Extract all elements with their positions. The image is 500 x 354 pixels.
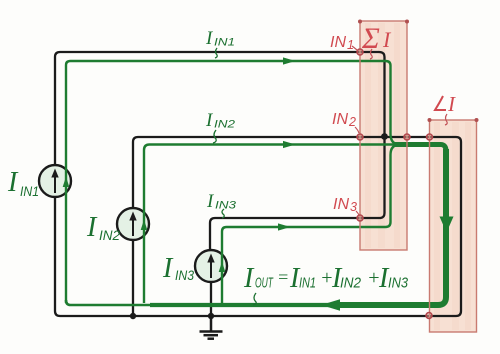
arrow I_IN1 inside source (up): [63, 177, 70, 188]
svg-text:IN: IN: [333, 196, 350, 213]
svg-text:1: 1: [347, 38, 354, 52]
svg-text:OUT: OUT: [255, 275, 274, 292]
label I_IN1 (source value): [7, 167, 39, 199]
label node IN3: [333, 196, 359, 215]
svg-text:IN3: IN3: [215, 200, 237, 212]
green output current I_OUT: thick vertical drop in output branch: [340, 149, 446, 305]
arrow I_IN3 flow (right): [278, 223, 291, 230]
wire: source I_IN3 bottom to ground rail: [210, 282, 212, 316]
wire: IN2 row from source I_IN2 to the right edge, down and along the bottom return to source I_IN1: [55, 137, 461, 316]
∠ I box corner dots: [428, 118, 479, 122]
label I_IN2 (middle wire current): [205, 110, 235, 143]
current source U2 (I_IN2): [117, 208, 149, 240]
green output return (thin, to I_IN1 branch): [66, 300, 150, 305]
label Σ I (sum of currents): [361, 22, 392, 59]
label I_IN2 (source value): [86, 212, 120, 243]
equation I_OUT = I_IN1 + I_IN2 + I_IN3: [243, 263, 409, 305]
svg-text:I: I: [7, 167, 19, 198]
junction source I_IN3 bottom / ground node: [208, 313, 214, 319]
highlight ∠ I box border: [430, 120, 477, 332]
label node IN2: [332, 111, 359, 133]
svg-text:IN: IN: [330, 34, 347, 51]
node IN3: [357, 215, 363, 221]
label ∠ I (output current direction): [435, 92, 456, 125]
svg-text:Σ: Σ: [361, 22, 380, 55]
svg-text:I: I: [447, 92, 456, 116]
svg-text:IN2: IN2: [99, 227, 120, 243]
wire: summing bus down to IN3 row and to source I_IN3 top: [210, 213, 385, 250]
svg-text:3: 3: [350, 200, 357, 214]
wire: source I_IN2 bottom to ground rail: [132, 240, 134, 316]
green current path I_IN1: bottom branch up through source, along top row to summing bus: [66, 61, 400, 303]
arrow I_IN1 flow (right): [283, 57, 296, 64]
junction on summing bus at IN2 row: [381, 133, 388, 140]
svg-text:IN2: IN2: [214, 119, 235, 131]
label I_IN3 (third wire current): [206, 191, 237, 218]
node IN1: [357, 49, 363, 55]
node IN2: [357, 134, 363, 140]
svg-text:IN2: IN2: [340, 275, 362, 292]
svg-text:IN1: IN1: [299, 275, 316, 292]
green output current I_OUT: thick segment right from summing bus: [394, 145, 446, 152]
svg-text:IN3: IN3: [388, 275, 409, 292]
arrow I_IN2 inside source (up): [141, 220, 148, 231]
green current path I_IN2: bottom branch up through source, along IN2 row to summing bus: [144, 145, 394, 304]
wire: I_IN1 loop top, from source up through node IN1 and down the summing bus: [55, 52, 385, 213]
node: wire enters ∠ I box: [427, 134, 433, 140]
svg-text:IN1: IN1: [214, 37, 235, 49]
svg-text:I: I: [86, 212, 98, 243]
arrow I_IN3 inside source (up): [219, 262, 226, 273]
label I_IN1 (top wire current): [205, 28, 235, 58]
svg-text:IN3: IN3: [175, 267, 194, 283]
junction source I_IN2 bottom: [130, 313, 136, 319]
current source U3 (I_IN3): [195, 250, 227, 282]
Σ I box corner dots: [358, 20, 409, 24]
label node IN1: [330, 34, 358, 52]
arrow I_OUT left: [321, 299, 340, 310]
svg-text:=: =: [277, 267, 289, 287]
green output return along bottom (medium): [150, 303, 342, 307]
ground: [200, 316, 223, 339]
green current path I_IN3: bottom branch up through source, along IN3 row and up the bus: [222, 145, 400, 304]
highlight Σ I box border: [360, 21, 407, 250]
svg-text:I: I: [162, 253, 174, 284]
svg-text:IN: IN: [332, 111, 349, 128]
highlight region ∠ I (output branch) fill: [430, 120, 477, 332]
svg-text:2: 2: [348, 115, 356, 129]
node: bottom wire enters ∠ I box: [426, 313, 432, 319]
arrow I_OUT down: [440, 217, 454, 233]
node: bus exits Σ I box: [404, 134, 410, 140]
arrow I_IN2 flow (right): [283, 141, 296, 148]
current source U1 (I_IN1): [39, 165, 71, 197]
svg-text:I: I: [243, 263, 255, 294]
highlight region Σ I (summing bus) fill: [360, 21, 407, 250]
svg-text:IN1: IN1: [20, 183, 39, 199]
label I_IN3 (source value): [162, 253, 194, 284]
